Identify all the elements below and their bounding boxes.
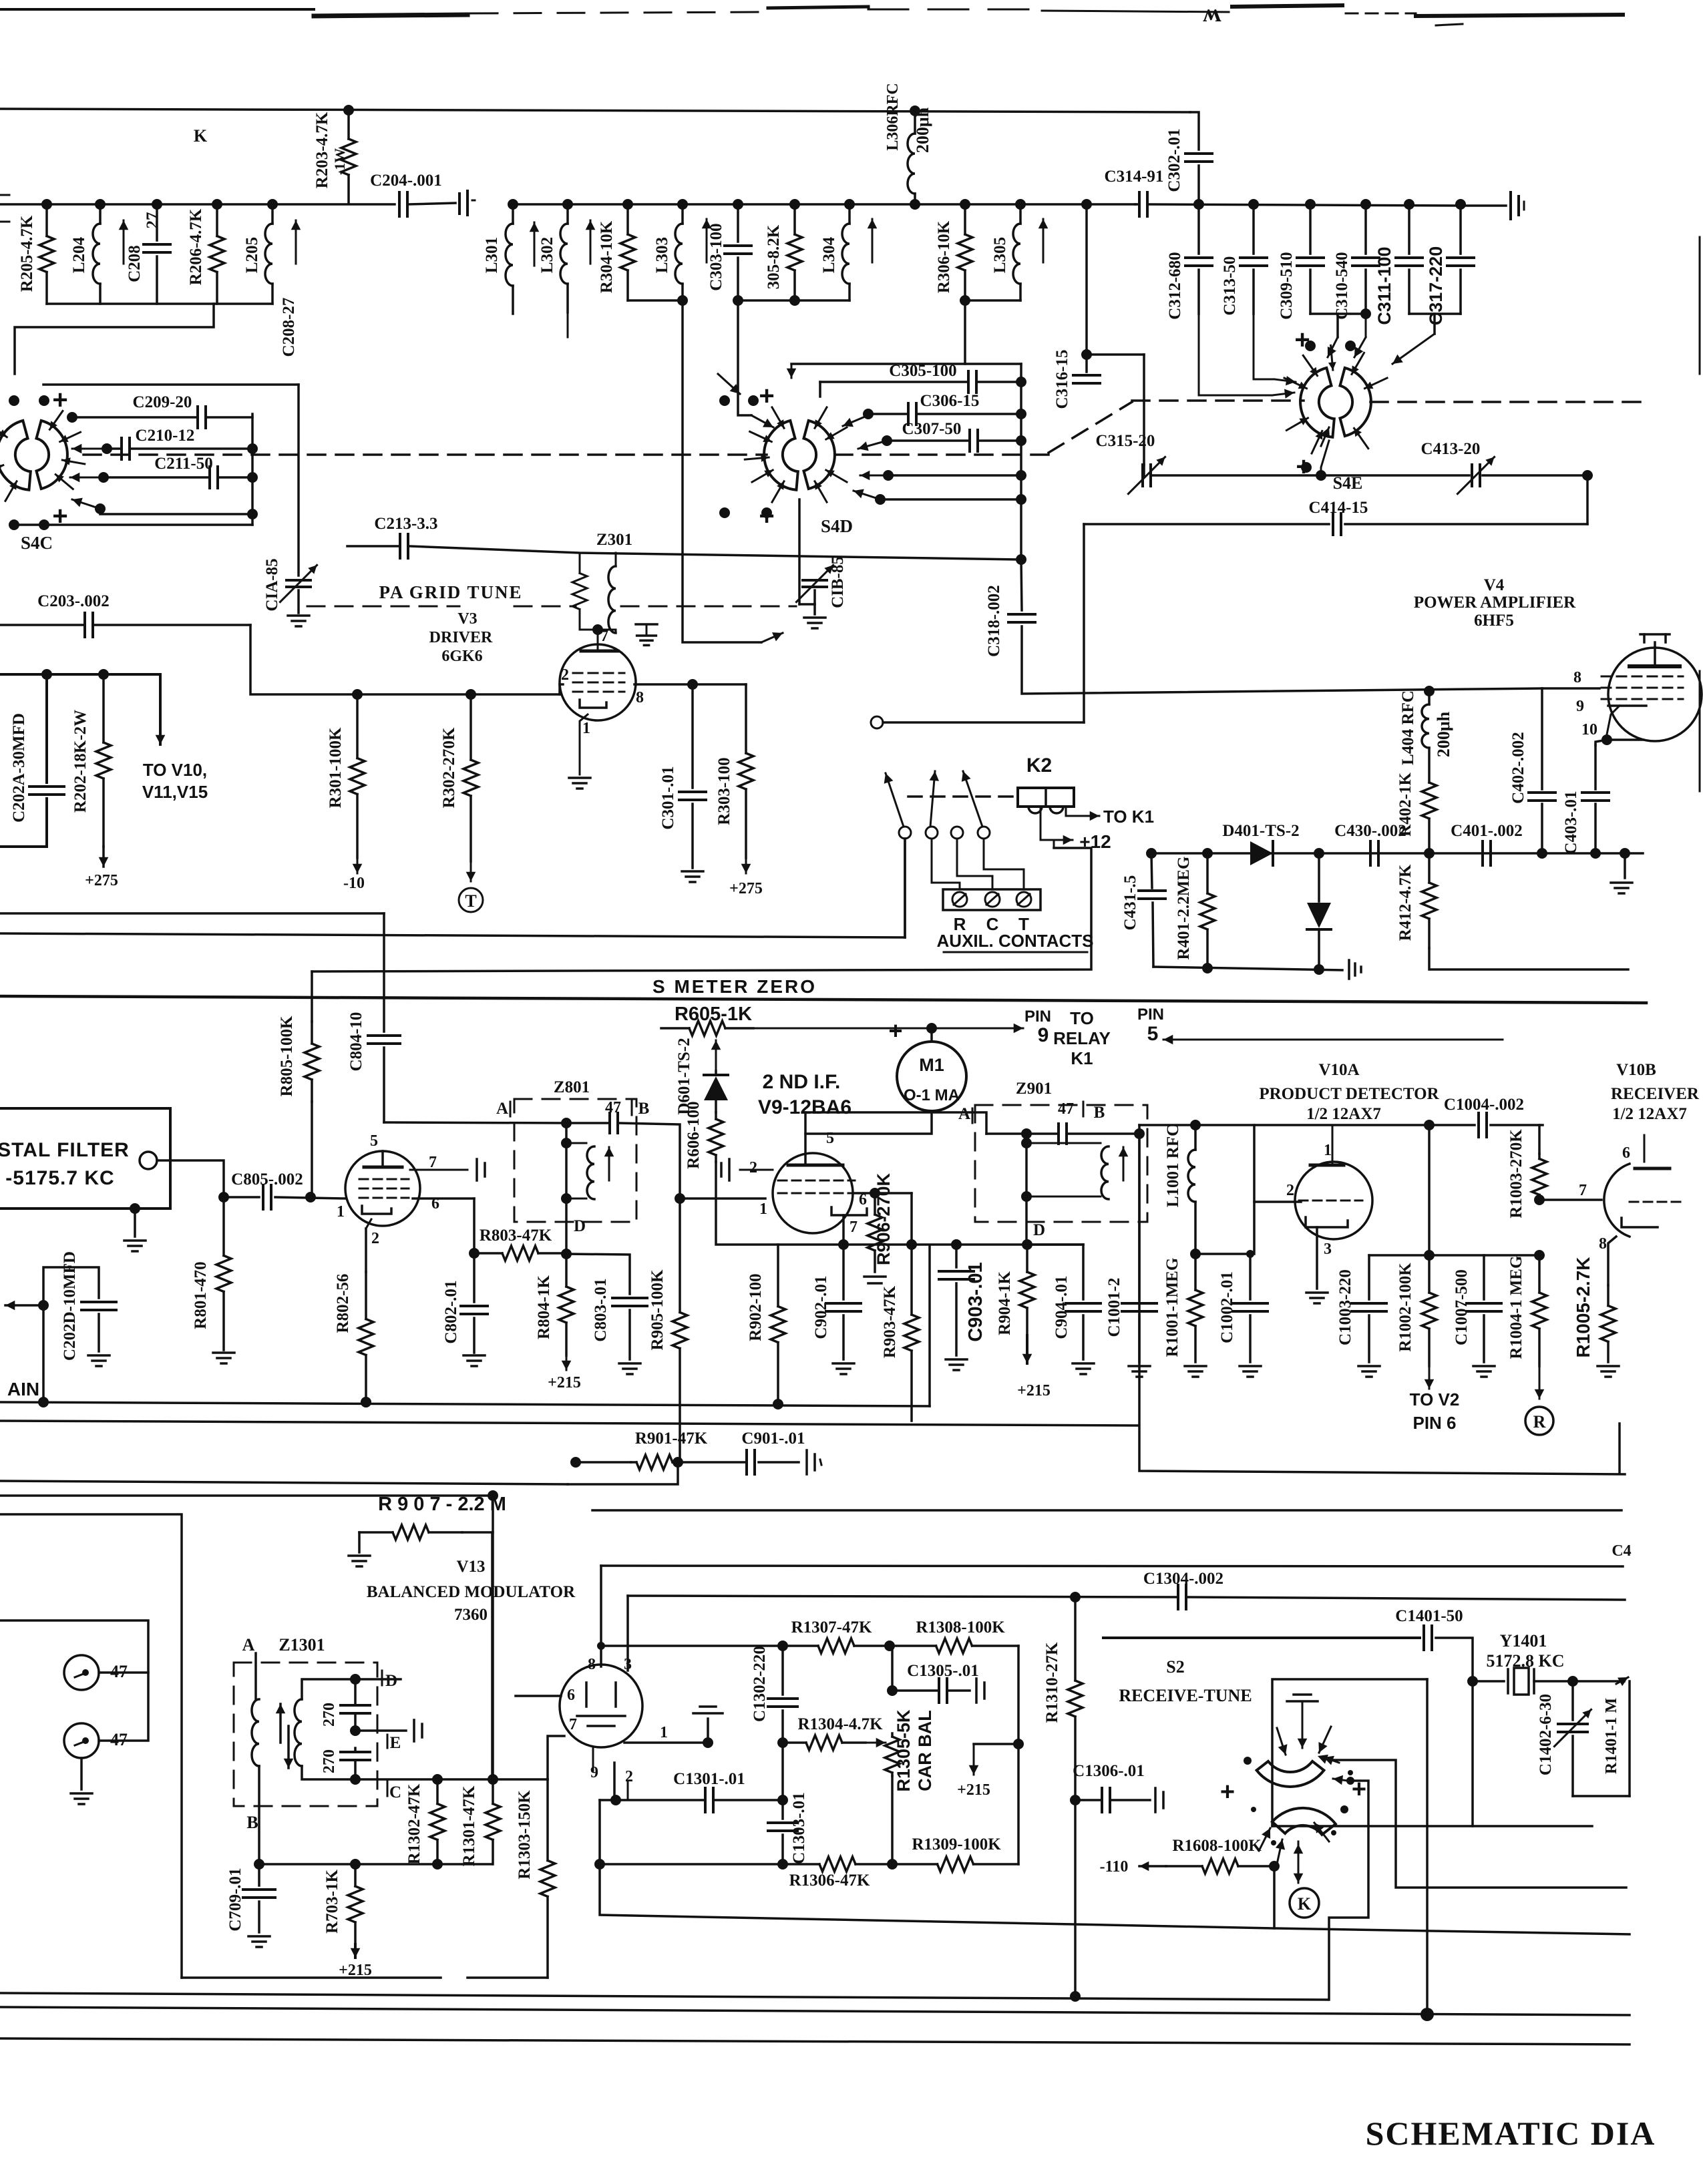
svg-text:5: 5	[370, 1132, 378, 1150]
svg-text:K2: K2	[1026, 754, 1052, 777]
svg-text:R1004-1 MEG: R1004-1 MEG	[1507, 1256, 1525, 1359]
svg-text:R805-100K: R805-100K	[278, 1016, 296, 1096]
svg-text:C1002-.01: C1002-.01	[1218, 1271, 1236, 1343]
svg-text:PIN 6: PIN 6	[1412, 1413, 1456, 1433]
svg-text:R605-1K: R605-1K	[675, 1004, 752, 1025]
svg-text:C210-12: C210-12	[136, 427, 195, 445]
svg-text:+215: +215	[1017, 1382, 1051, 1399]
svg-text:7: 7	[569, 1716, 577, 1733]
svg-text:A: A	[958, 1105, 970, 1123]
svg-text:C302-.01: C302-.01	[1165, 128, 1183, 192]
svg-text:CAR BAL: CAR BAL	[915, 1710, 935, 1791]
svg-text:9: 9	[590, 1764, 598, 1781]
svg-text:C431-.5: C431-.5	[1121, 875, 1139, 931]
svg-text:C202D-10MFD: C202D-10MFD	[61, 1251, 79, 1361]
svg-text:L404 RFC: L404 RFC	[1399, 690, 1417, 765]
svg-text:9: 9	[1038, 1024, 1049, 1046]
svg-text:C1001-2: C1001-2	[1105, 1278, 1123, 1337]
svg-text:R303-100: R303-100	[715, 757, 733, 825]
svg-text:Z301: Z301	[596, 531, 632, 549]
svg-text:10: 10	[1581, 721, 1597, 738]
svg-text:R902-100: R902-100	[747, 1273, 765, 1341]
svg-text:270: 270	[321, 1703, 338, 1727]
svg-text:R203-4.7K: R203-4.7K	[313, 112, 331, 188]
svg-text:R904-1K: R904-1K	[996, 1271, 1014, 1335]
svg-text:R1306-47K: R1306-47K	[789, 1872, 870, 1890]
svg-text:D401-TS-2: D401-TS-2	[1222, 822, 1299, 840]
svg-text:C211-50: C211-50	[154, 455, 213, 473]
svg-text:TO V10,: TO V10,	[143, 760, 207, 780]
svg-text:V3: V3	[457, 610, 477, 628]
svg-text:R903-47K: R903-47K	[881, 1285, 899, 1358]
svg-text:+215: +215	[339, 1962, 372, 1979]
svg-text:+275: +275	[85, 872, 118, 889]
svg-text:R306-10K: R306-10K	[935, 220, 953, 293]
svg-text:2: 2	[625, 1768, 633, 1785]
svg-text:R1303-150K: R1303-150K	[516, 1790, 534, 1880]
svg-text:1/2 12AX7: 1/2 12AX7	[1612, 1105, 1687, 1123]
svg-text:B: B	[638, 1100, 650, 1118]
svg-text:C301-.01: C301-.01	[659, 766, 677, 829]
svg-text:1: 1	[337, 1203, 345, 1221]
svg-text:6GK6: 6GK6	[441, 648, 482, 665]
svg-text:RECEIVER: RECEIVER	[1611, 1085, 1700, 1103]
svg-text:C430-.002: C430-.002	[1334, 822, 1406, 840]
svg-text:R905-100K: R905-100K	[648, 1269, 667, 1350]
svg-text:C315-20: C315-20	[1096, 432, 1155, 450]
svg-text:C1401-50: C1401-50	[1395, 1607, 1463, 1625]
svg-text:TO: TO	[1070, 1008, 1094, 1028]
svg-text:R412-4.7K: R412-4.7K	[1396, 864, 1414, 941]
svg-text:6HF5: 6HF5	[1474, 612, 1514, 630]
svg-text:V10A: V10A	[1318, 1061, 1359, 1079]
svg-text:E: E	[390, 1734, 401, 1752]
svg-text:C1402-6-30: C1402-6-30	[1537, 1694, 1555, 1775]
svg-text:C203-.002: C203-.002	[37, 592, 110, 610]
svg-text:C305-100: C305-100	[889, 362, 956, 380]
svg-text:8: 8	[1573, 669, 1581, 686]
svg-text:1/2 12AX7: 1/2 12AX7	[1306, 1105, 1381, 1123]
svg-text:C307-50: C307-50	[902, 420, 962, 438]
svg-text:C1007-500: C1007-500	[1453, 1269, 1471, 1345]
svg-text:305-8.2K: 305-8.2K	[765, 224, 783, 289]
svg-text:R802-56: R802-56	[334, 1274, 352, 1333]
svg-text:C1004-.002: C1004-.002	[1444, 1096, 1524, 1114]
svg-text:R1001-1MEG: R1001-1MEG	[1163, 1258, 1181, 1357]
svg-text:2: 2	[749, 1159, 757, 1176]
svg-text:STAL FILTER: STAL FILTER	[0, 1139, 130, 1161]
svg-text:SCHEMATIC DIA: SCHEMATIC DIA	[1366, 2115, 1656, 2152]
svg-text:S METER ZERO: S METER ZERO	[652, 976, 817, 997]
svg-text:C1306-.01: C1306-.01	[1073, 1762, 1145, 1780]
svg-text:S2: S2	[1166, 1657, 1184, 1677]
svg-text:R401-2.2MEG: R401-2.2MEG	[1175, 857, 1193, 960]
svg-text:Z901: Z901	[1016, 1080, 1052, 1098]
svg-text:K1: K1	[1071, 1048, 1093, 1068]
svg-text:3: 3	[624, 1656, 632, 1673]
svg-text:2: 2	[1286, 1182, 1294, 1199]
svg-text:1: 1	[660, 1724, 668, 1741]
svg-text:2 ND I.F.: 2 ND I.F.	[763, 1071, 841, 1093]
svg-text:Z801: Z801	[554, 1078, 590, 1096]
svg-text:C805-.002: C805-.002	[231, 1170, 303, 1188]
svg-text:R302-270K: R302-270K	[440, 727, 458, 808]
svg-text:L305: L305	[991, 237, 1009, 273]
svg-text:C310-540: C310-540	[1333, 252, 1351, 319]
svg-text:R1005-2.7K: R1005-2.7K	[1573, 1257, 1593, 1358]
svg-text:C904-.01: C904-.01	[1053, 1275, 1071, 1339]
svg-text:270: 270	[321, 1749, 338, 1773]
svg-text:K: K	[1298, 1894, 1312, 1914]
svg-text:TO V2: TO V2	[1410, 1389, 1460, 1409]
svg-text:+215: +215	[957, 1781, 990, 1799]
svg-text:7: 7	[600, 628, 608, 645]
svg-text:R1401-1 M: R1401-1 M	[1603, 1698, 1620, 1774]
svg-text:C903-.01: C903-.01	[965, 1262, 986, 1341]
svg-text:R1310-27K: R1310-27K	[1043, 1642, 1061, 1723]
svg-text:R1307-47K: R1307-47K	[791, 1618, 872, 1636]
svg-text:POWER AMPLIFIER: POWER AMPLIFIER	[1414, 594, 1576, 612]
svg-text:C: C	[389, 1783, 401, 1801]
svg-text:C803-.01: C803-.01	[592, 1278, 610, 1341]
svg-text:R206-4.7K: R206-4.7K	[187, 208, 205, 285]
svg-text:C303-100: C303-100	[707, 223, 725, 290]
svg-text:D: D	[1033, 1221, 1045, 1239]
svg-text:+: +	[759, 381, 774, 411]
svg-text:A: A	[496, 1100, 508, 1118]
svg-text:L304: L304	[820, 236, 838, 273]
svg-text:6: 6	[567, 1687, 575, 1704]
svg-text:2: 2	[371, 1230, 379, 1247]
svg-text:+: +	[1220, 1778, 1235, 1806]
svg-text:C313-50: C313-50	[1221, 256, 1239, 316]
svg-text:DRIVER: DRIVER	[429, 629, 493, 646]
svg-text:D: D	[574, 1217, 586, 1235]
svg-text:Z1301: Z1301	[278, 1635, 325, 1655]
svg-text:C1303-.01: C1303-.01	[790, 1792, 808, 1864]
svg-text:D: D	[385, 1672, 397, 1690]
svg-text:C1304-.002: C1304-.002	[1143, 1570, 1223, 1588]
svg-text:V13: V13	[456, 1558, 485, 1576]
svg-text:C401-.002: C401-.002	[1451, 822, 1523, 840]
svg-text:R1301-47K: R1301-47K	[460, 1785, 478, 1866]
svg-text:L306RFC: L306RFC	[884, 83, 902, 150]
svg-text:7: 7	[849, 1219, 858, 1236]
svg-text:PIN: PIN	[1137, 1006, 1164, 1024]
svg-text:K: K	[194, 126, 208, 146]
svg-text:7360: 7360	[454, 1606, 488, 1624]
svg-text:+215: +215	[548, 1374, 581, 1391]
svg-text:C802-.01: C802-.01	[442, 1280, 460, 1343]
svg-text:C403-.01: C403-.01	[1562, 791, 1580, 854]
svg-text:1: 1	[582, 720, 590, 737]
svg-text:C804-10: C804-10	[347, 1012, 365, 1072]
svg-text:B: B	[1094, 1104, 1105, 1122]
svg-text:3: 3	[1324, 1241, 1332, 1258]
svg-text:R1304-4.7K: R1304-4.7K	[797, 1715, 883, 1733]
svg-text:RECEIVE-TUNE: RECEIVE-TUNE	[1119, 1686, 1252, 1705]
svg-text:ʍ: ʍ	[1203, 0, 1221, 27]
svg-text:S4C: S4C	[21, 533, 53, 553]
svg-text:1: 1	[759, 1200, 767, 1218]
svg-text:C208-27: C208-27	[280, 298, 298, 357]
svg-text:8: 8	[636, 689, 644, 706]
svg-text:A: A	[242, 1635, 255, 1655]
svg-text:+: +	[888, 1017, 902, 1044]
svg-text:R804-1K: R804-1K	[535, 1275, 553, 1339]
svg-text:L303: L303	[653, 237, 671, 273]
svg-text:L204: L204	[70, 236, 88, 273]
svg-text:V4: V4	[1484, 576, 1505, 594]
svg-text:L1001 RFC: L1001 RFC	[1164, 1124, 1182, 1207]
svg-text:R801-470: R801-470	[192, 1261, 210, 1329]
svg-text:C1003-220: C1003-220	[1336, 1269, 1354, 1345]
svg-text:C1305-.01: C1305-.01	[907, 1662, 979, 1680]
svg-text:R703-1K: R703-1K	[323, 1870, 341, 1934]
svg-text:R202-18K-2W: R202-18K-2W	[71, 710, 89, 813]
svg-text:R 9 0 7 - 2.2 M: R 9 0 7 - 2.2 M	[378, 1494, 506, 1515]
svg-text:C204-.001: C204-.001	[370, 172, 442, 190]
svg-text:5: 5	[826, 1130, 834, 1147]
svg-text:R301-100K: R301-100K	[327, 727, 345, 808]
svg-text:R1309-100K: R1309-100K	[912, 1835, 1001, 1853]
svg-text:R1302-47K: R1302-47K	[405, 1783, 423, 1864]
svg-text:AIN: AIN	[7, 1379, 39, 1399]
svg-text:R304-10K: R304-10K	[598, 220, 616, 293]
svg-text:C414-15: C414-15	[1309, 499, 1368, 517]
svg-text:L301: L301	[483, 237, 501, 273]
svg-text:R1608-100K: R1608-100K	[1172, 1837, 1262, 1855]
svg-text:S4D: S4D	[821, 516, 853, 536]
svg-text:200μh: 200μh	[913, 107, 932, 153]
svg-text:7: 7	[429, 1154, 437, 1171]
svg-text:C316-15: C316-15	[1053, 350, 1071, 409]
svg-text:R1003-270K: R1003-270K	[1507, 1129, 1525, 1219]
svg-text:+: +	[52, 501, 67, 531]
svg-text:RELAY: RELAY	[1053, 1028, 1111, 1048]
svg-text:R606-100: R606-100	[685, 1101, 703, 1168]
svg-text:27: 27	[144, 212, 162, 229]
svg-text:-5175.7 KC: -5175.7 KC	[5, 1167, 114, 1189]
svg-text:AUXIL. CONTACTS: AUXIL. CONTACTS	[937, 931, 1094, 951]
svg-text:PA GRID TUNE: PA GRID TUNE	[379, 582, 522, 602]
svg-text:1: 1	[1324, 1142, 1332, 1159]
svg-text:L302: L302	[538, 237, 556, 273]
svg-text:R1308-100K: R1308-100K	[916, 1618, 1005, 1636]
svg-text:CIB-85: CIB-85	[829, 556, 847, 608]
svg-text:9: 9	[1576, 698, 1584, 715]
svg-text:-10: -10	[343, 875, 365, 892]
svg-text:V10B: V10B	[1616, 1061, 1656, 1079]
svg-text:PRODUCT DETECTOR: PRODUCT DETECTOR	[1259, 1085, 1439, 1103]
svg-text:47: 47	[1058, 1100, 1074, 1118]
svg-text:CIA-85: CIA-85	[263, 558, 281, 611]
svg-text:C209-20: C209-20	[133, 393, 192, 411]
svg-text:C901-.01: C901-.01	[741, 1430, 805, 1448]
svg-text:C709-.01: C709-.01	[226, 1868, 244, 1931]
svg-text:C413-20: C413-20	[1421, 440, 1481, 458]
svg-text:B: B	[246, 1813, 258, 1832]
svg-text:+275: +275	[729, 880, 763, 897]
svg-text:R803-47K: R803-47K	[480, 1227, 552, 1245]
svg-text:BALANCED MODULATOR: BALANCED MODULATOR	[367, 1583, 576, 1601]
svg-text:Y1401: Y1401	[1500, 1631, 1547, 1651]
svg-text:V11,V15: V11,V15	[142, 782, 208, 802]
svg-text:C4: C4	[1612, 1542, 1631, 1560]
svg-text:O-1 MA: O-1 MA	[904, 1086, 960, 1104]
svg-text:+: +	[52, 385, 67, 415]
svg-text:C306-15: C306-15	[920, 392, 980, 410]
svg-text:PIN: PIN	[1024, 1008, 1051, 1026]
svg-text:-110: -110	[1100, 1858, 1129, 1876]
svg-text:-1W: -1W	[331, 148, 348, 175]
svg-text:R901-47K: R901-47K	[635, 1430, 708, 1448]
svg-text:6: 6	[1622, 1144, 1630, 1162]
svg-text:T: T	[465, 891, 476, 911]
svg-text:M1: M1	[919, 1055, 944, 1075]
svg-text:C314-91: C314-91	[1105, 168, 1164, 186]
svg-text:R1002-100K: R1002-100K	[1396, 1263, 1414, 1352]
svg-text:TO K1: TO K1	[1103, 807, 1154, 827]
svg-text:2: 2	[561, 666, 569, 684]
svg-text:C202A-30MFD: C202A-30MFD	[10, 713, 28, 823]
svg-text:C318-.002: C318-.002	[985, 585, 1003, 657]
svg-text:C902-.01: C902-.01	[812, 1275, 830, 1339]
svg-text:R205-4.7K: R205-4.7K	[18, 215, 36, 292]
svg-text:5: 5	[1147, 1023, 1159, 1045]
svg-text:L205: L205	[243, 237, 261, 273]
svg-text:C312-680: C312-680	[1166, 252, 1184, 319]
svg-text:200μh: 200μh	[1434, 711, 1453, 757]
svg-text:C213-3.3: C213-3.3	[374, 515, 437, 533]
svg-text:C1302-220: C1302-220	[751, 1646, 769, 1722]
svg-text:C311-100: C311-100	[1374, 246, 1394, 324]
svg-text:8: 8	[588, 1656, 596, 1673]
svg-text:8: 8	[1599, 1235, 1607, 1253]
svg-text:7: 7	[1579, 1182, 1587, 1199]
svg-text:C309-510: C309-510	[1278, 252, 1296, 319]
svg-text:C208: C208	[126, 245, 144, 282]
svg-text:R: R	[1533, 1412, 1546, 1432]
svg-text:C402-.002: C402-.002	[1509, 732, 1527, 804]
svg-text:C1301-.01: C1301-.01	[673, 1770, 745, 1788]
